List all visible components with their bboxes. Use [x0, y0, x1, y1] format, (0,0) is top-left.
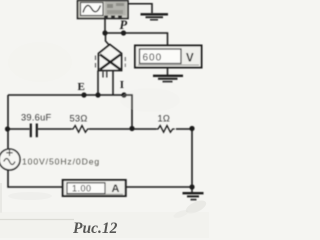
capacitor C1 value 39.6uF — [21, 113, 52, 123]
svg-text:53Ω: 53Ω — [70, 114, 88, 124]
resistor R2 value 1ohm — [158, 114, 171, 124]
svg-text:1Ω: 1Ω — [158, 114, 171, 124]
resistor R1 value 53ohm — [70, 114, 88, 124]
ground (top right) — [141, 14, 169, 19]
node P label — [120, 18, 128, 32]
oscilloscope XSC1 icon — [78, 1, 129, 19]
ammeter A1 1.00 A — [63, 180, 126, 196]
svg-text:39.6uF: 39.6uF — [21, 113, 52, 123]
junction rail to component row — [129, 126, 134, 131]
node I junction — [121, 92, 126, 97]
wire resistor R2 to right branch — [176, 128, 192, 130]
wire capacitor to resistor R1 — [38, 128, 71, 130]
resistor R2 — [156, 126, 175, 133]
wire node P to multiplier apex — [106, 33, 110, 46]
capacitor C1 — [31, 124, 37, 138]
caption rule — [0, 219, 74, 221]
node P junction — [121, 30, 126, 35]
node E label — [78, 81, 85, 93]
wire E-I rail — [8, 95, 132, 129]
svg-text:V: V — [186, 53, 194, 65]
svg-text:P: P — [120, 18, 128, 32]
wire voltmeter to ground — [167, 68, 169, 76]
svg-text:600: 600 — [143, 52, 163, 63]
ground (bottom right) — [183, 193, 204, 199]
wire capacitor row left — [8, 128, 30, 130]
wire to bottom ground — [191, 187, 193, 193]
wire ammeter to right branch — [126, 186, 192, 188]
multiplier X1 (wattmeter block) — [96, 45, 126, 78]
scan smudges (decorative) — [0, 42, 209, 238]
wire node P rail to voltmeter — [105, 33, 168, 46]
paper background — [0, 0, 209, 238]
svg-text:1.00: 1.00 — [72, 184, 92, 194]
wire right branch vertical — [191, 129, 193, 188]
junction right top — [189, 126, 194, 131]
voltmeter V1 600 V — [135, 46, 202, 68]
wire resistor R1 to resistor R2 — [90, 128, 157, 130]
ground (under voltmeter) — [153, 76, 183, 82]
svg-text:A: A — [112, 183, 120, 195]
wire multiplier left leg down — [97, 71, 99, 96]
wire multiplier bottom leg down — [112, 71, 114, 96]
resistor R1 — [71, 126, 90, 133]
junction capacitor row — [5, 126, 10, 131]
junction at oscilloscope drop — [102, 30, 107, 35]
wire oscilloscope bottom to node P rail — [104, 19, 106, 34]
junction bottom right — [189, 184, 194, 189]
svg-text:I: I — [120, 79, 124, 91]
wire left branch vertical — [7, 95, 9, 149]
AC source V2 — [0, 149, 20, 170]
svg-text:E: E — [78, 81, 85, 93]
wire oscilloscope to top ground — [128, 4, 152, 13]
svg-text:100V/50Hz/0Deg: 100V/50Hz/0Deg — [22, 157, 100, 167]
wire source bottom to ammeter — [8, 170, 63, 187]
AC source value label — [22, 157, 100, 167]
node E junction — [81, 92, 86, 97]
junction multiplier left leg — [95, 92, 100, 97]
node I label — [120, 79, 124, 91]
